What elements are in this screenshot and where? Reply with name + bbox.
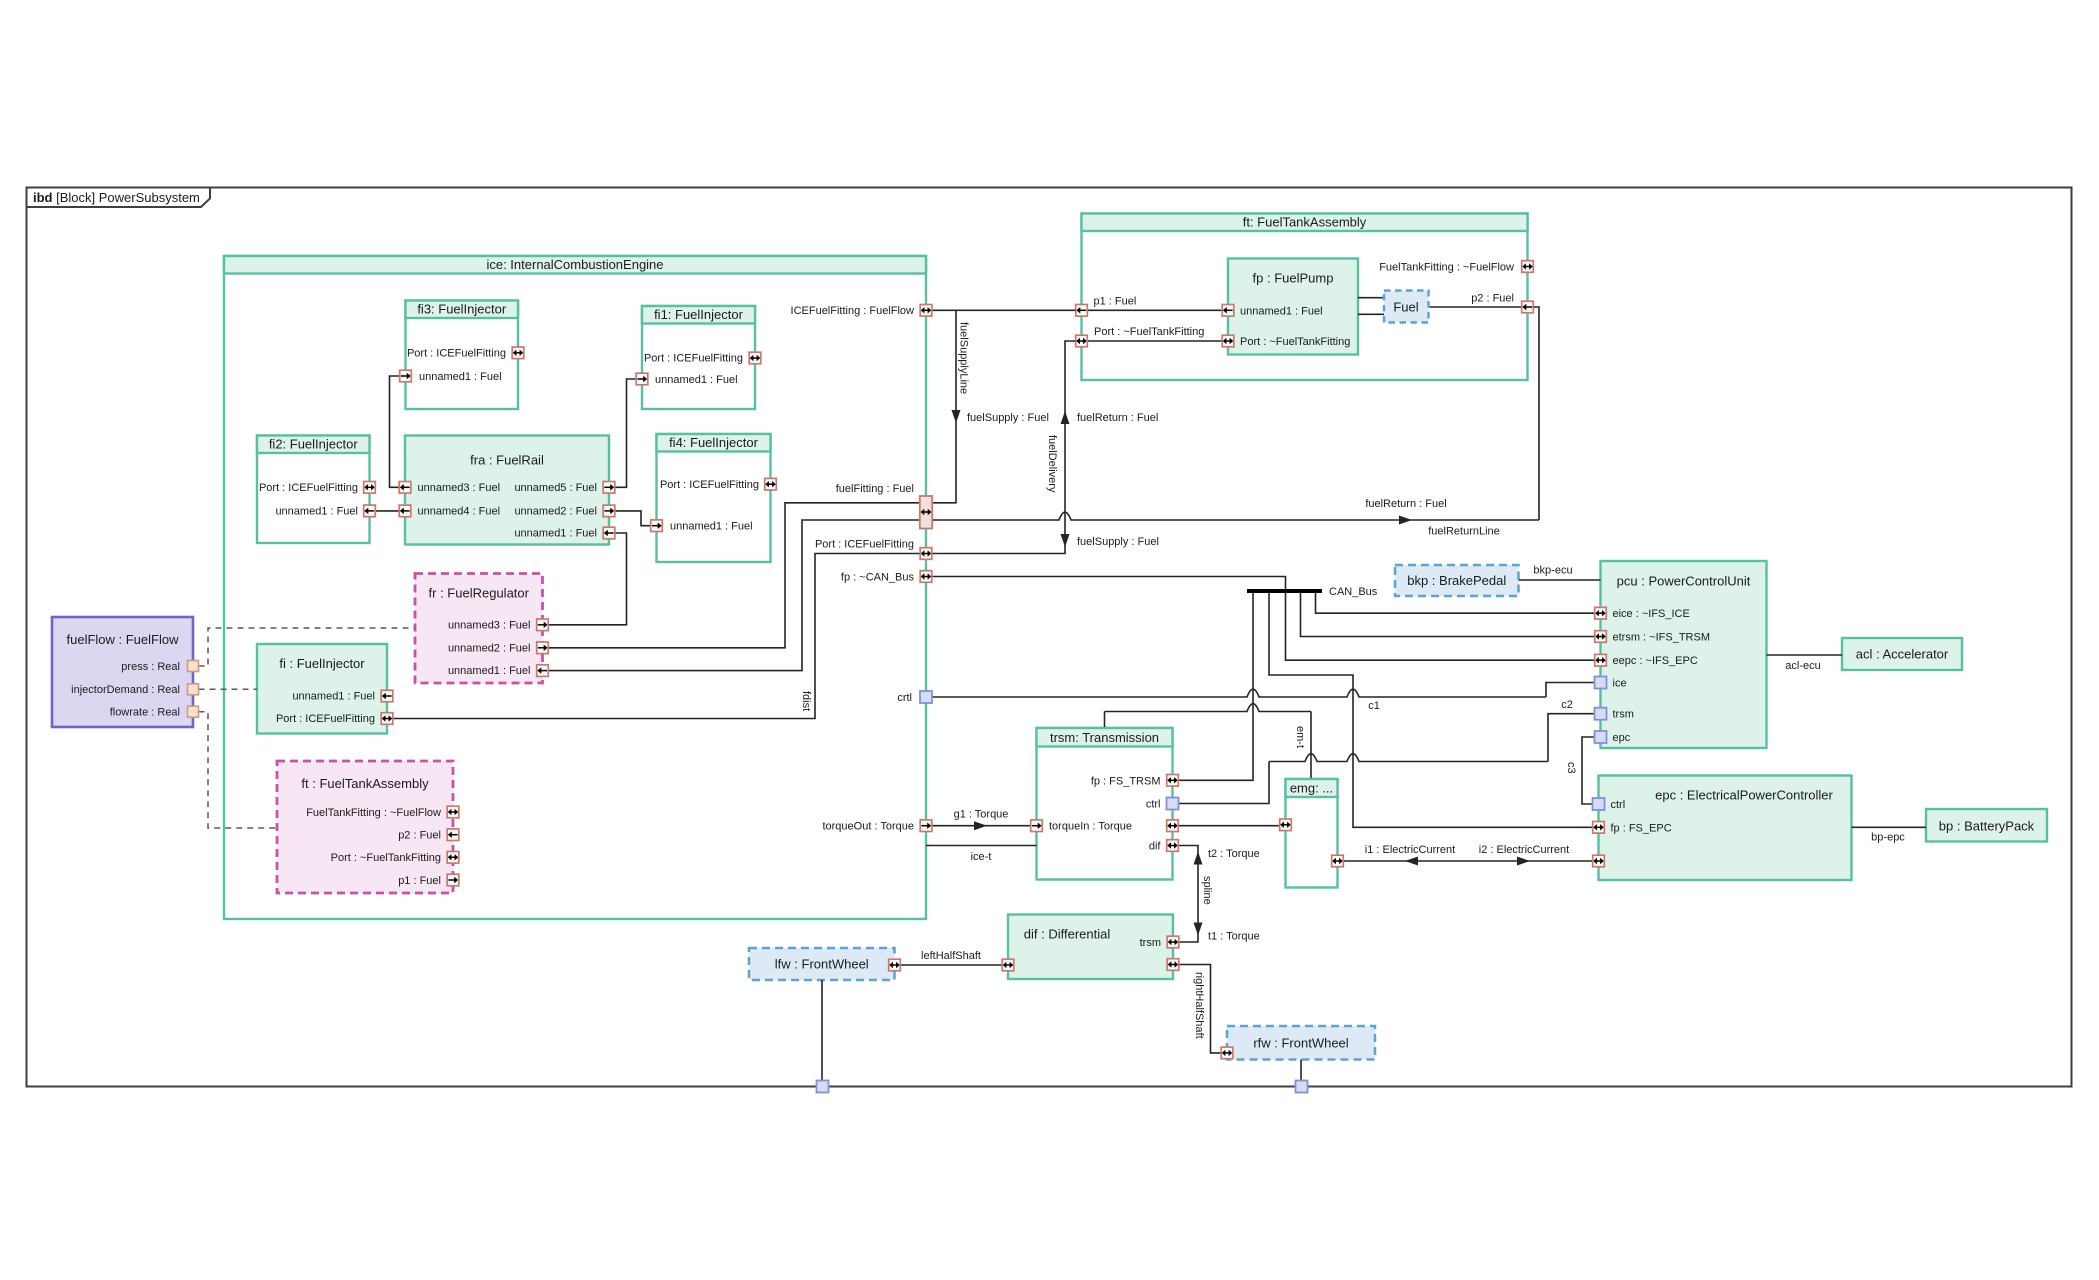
wire acl-ecu [1767,654,1843,656]
svg-text:torqueOut : Torque: torqueOut : Torque [822,821,914,833]
block emg: ... [1286,779,1338,888]
block trsm: Transmission [1037,728,1173,880]
block fi3: FuelInjector [406,301,519,410]
wire c1: ice crtl to pcu ice [933,689,1547,697]
ports fi [381,690,393,702]
port FuelTankFitting : ~FuelFlow (ft right) [1522,261,1534,273]
svg-text:fuelReturn : Fuel: fuelReturn : Fuel [1077,412,1158,424]
block fi4: FuelInjector [657,434,771,562]
svg-text:lfw : FrontWheel: lfw : FrontWheel [775,957,869,972]
svg-text:Port : ICEFuelFitting: Port : ICEFuelFitting [407,348,506,360]
wire fi3 unnamed1 to fra unnamed3 [390,376,400,487]
svg-text:flowrate : Real: flowrate : Real [110,707,180,719]
wire fi1 unnamed1 to fra unnamed5 [615,379,636,487]
svg-text:Port : ~FuelTankFitting: Port : ~FuelTankFitting [1094,326,1204,338]
svg-text:Port : ~FuelTankFitting: Port : ~FuelTankFitting [331,852,441,864]
svg-text:g1 : Torque: g1 : Torque [954,809,1009,821]
svg-text:p2 : Fuel: p2 : Fuel [1471,293,1514,305]
block fi1: FuelInjector [642,306,755,409]
svg-text:fuelSupply : Fuel: fuelSupply : Fuel [967,412,1049,424]
svg-text:fuelFlow : FuelFlow: fuelFlow : FuelFlow [67,632,180,647]
svg-text:fuelSupply : Fuel: fuelSupply : Fuel [1077,536,1159,548]
block epc : ElectricalPowerController [1599,776,1852,881]
svg-text:Port : ICEFuelFitting: Port : ICEFuelFitting [644,353,743,365]
wire fuelReturnLine [933,512,1540,520]
ports ft bottom [447,806,459,818]
block acl : Accelerator [1842,638,1962,670]
svg-text:rfw : FrontWheel: rfw : FrontWheel [1253,1035,1348,1050]
diagram frame [27,188,2072,1087]
svg-text:FuelTankFitting : ~FuelFlow: FuelTankFitting : ~FuelFlow [1379,262,1514,274]
wire bp-epc [1852,826,1927,828]
block fi : FuelInjector [257,644,387,734]
svg-text:fdist: fdist [800,691,812,711]
svg-text:fuelFitting : Fuel: fuelFitting : Fuel [836,483,914,495]
svg-text:pcu : PowerControlUnit: pcu : PowerControlUnit [1617,574,1751,589]
ports fi4 [765,478,777,490]
svg-text:emg: ...: emg: ... [1290,781,1333,796]
ports fra [399,482,411,494]
wire spline: trsm dif to dif trsm [1179,846,1199,943]
svg-text:torqueIn : Torque: torqueIn : Torque [1049,821,1132,833]
svg-text:bkp : BrakePedal: bkp : BrakePedal [1407,573,1506,588]
wire rightHalfShaft [1173,965,1221,1053]
svg-text:Port : ICEFuelFitting: Port : ICEFuelFitting [276,713,375,725]
block fr : FuelRegulator (dashed) [415,574,543,684]
svg-text:unnamed1 : Fuel: unnamed1 : Fuel [655,374,738,386]
svg-text:Port : ICEFuelFitting: Port : ICEFuelFitting [259,482,358,494]
svg-text:ICEFuelFitting : FuelFlow: ICEFuelFitting : FuelFlow [791,305,915,317]
svg-text:p2 : Fuel: p2 : Fuel [398,830,441,842]
block rfw : FrontWheel (dashed) [1227,1026,1375,1060]
wire p1 line: ICEFuelFitting to ft p1 [933,309,1076,311]
wire bus to trsm fp [1179,593,1254,781]
svg-text:fp : FS_EPC: fp : FS_EPC [1611,822,1672,834]
svg-text:press : Real: press : Real [121,661,180,673]
svg-text:fp : FS_TRSM: fp : FS_TRSM [1091,775,1161,787]
wire fp to Fuel [1358,297,1384,299]
svg-text:bp-epc: bp-epc [1871,832,1905,844]
svg-text:trsm: trsm [1613,709,1634,721]
svg-text:p1 : Fuel: p1 : Fuel [398,875,441,887]
wire bus to epc fp [1269,593,1593,828]
svg-text:ft : FuelTankAssembly: ft : FuelTankAssembly [301,776,429,791]
frame label tab ibd [Block] PowerSubsystem [27,188,211,208]
svg-text:FuelTankFitting : ~FuelFlow: FuelTankFitting : ~FuelFlow [306,807,441,819]
svg-text:fuelDelivery: fuelDelivery [1046,435,1058,493]
svg-text:acl : Accelerator: acl : Accelerator [1856,647,1949,662]
block bp : BatteryPack [1926,809,2047,842]
svg-text:unnamed1 : Fuel: unnamed1 : Fuel [292,691,375,703]
svg-text:Port : ICEFuelFitting: Port : ICEFuelFitting [660,479,759,491]
svg-text:etrsm : ~IFS_TRSM: etrsm : ~IFS_TRSM [1613,632,1711,644]
svg-text:fi4: FuelInjector: fi4: FuelInjector [669,435,759,450]
wire bus to pcu etrsm [1301,593,1595,637]
svg-text:bp : BatteryPack: bp : BatteryPack [1939,819,2035,834]
ice boundary port fp : ~CAN_Bus [920,571,932,583]
svg-text:t2 : Torque: t2 : Torque [1208,848,1260,860]
wire g1: torqueOut to torqueIn [933,825,1031,827]
port p2 : Fuel (ft right) [1522,301,1534,313]
wire dashed press to fr [199,628,416,666]
svg-text:ft: FuelTankAssembly: ft: FuelTankAssembly [1243,215,1367,230]
ports trsm [1031,820,1043,832]
wire bus to pcu eepc [1286,593,1595,661]
wire fra unnamed1 to fr unnamed3 [549,533,627,625]
svg-text:eepc : ~IFS_EPC: eepc : ~IFS_EPC [1613,655,1698,667]
block fp : FuelPump [1228,259,1358,355]
svg-text:fi1: FuelInjector: fi1: FuelInjector [654,307,744,322]
block ice: InternalCombustionEngine [224,256,926,919]
svg-text:injectorDemand : Real: injectorDemand : Real [71,684,180,696]
svg-text:c3: c3 [1565,762,1577,774]
svg-text:epc : ElectricalPowerControlle: epc : ElectricalPowerController [1655,788,1833,803]
ice boundary port Port : ICEFuelFitting [920,548,932,560]
ice boundary tall port fuelFitting : Fuel [920,496,932,529]
svg-text:i2 : ElectricCurrent: i2 : ElectricCurrent [1479,844,1569,856]
svg-text:trsm: trsm [1140,937,1161,949]
ports epc [1593,798,1605,810]
svg-text:Port : ~FuelTankFitting: Port : ~FuelTankFitting [1240,336,1350,348]
svg-text:dif : Differential: dif : Differential [1024,927,1111,942]
svg-text:c1: c1 [1368,700,1380,712]
block Fuel (dashed) [1384,291,1429,323]
frame port rfw [1296,1081,1308,1093]
svg-text:unnamed4 : Fuel: unnamed4 : Fuel [418,506,501,518]
svg-text:ctrl: ctrl [1146,799,1161,811]
svg-text:fp : ~CAN_Bus: fp : ~CAN_Bus [841,572,915,584]
svg-text:ice-t: ice-t [971,851,992,863]
port rfw [1221,1047,1233,1059]
svg-text:unnamed2 : Fuel: unnamed2 : Fuel [448,643,531,655]
svg-text:unnamed1 : Fuel: unnamed1 : Fuel [670,521,753,533]
svg-text:unnamed1 : Fuel: unnamed1 : Fuel [448,665,531,677]
wire Fuel to p2 [1429,306,1522,308]
wire fp CAN bus [933,577,1286,590]
svg-text:c2: c2 [1561,699,1573,711]
svg-text:unnamed2 : Fuel: unnamed2 : Fuel [514,506,597,518]
wire fi2 unnamed1 to fra unnamed4 [376,510,400,512]
svg-text:ice: InternalCombustionEngine: ice: InternalCombustionEngine [486,257,663,272]
svg-text:ctrl: ctrl [1611,799,1626,811]
ports emg [1280,819,1292,831]
svg-text:CAN_Bus: CAN_Bus [1329,586,1378,598]
wire Port inner [1088,340,1222,342]
svg-text:crtl: crtl [897,692,912,704]
svg-text:fuelReturn : Fuel: fuelReturn : Fuel [1365,498,1446,510]
svg-text:trsm: Transmission: trsm: Transmission [1050,730,1159,745]
block bkp : BrakePedal (dashed) [1395,565,1519,596]
ports pcu [1595,607,1607,619]
svg-text:fr : FuelRegulator: fr : FuelRegulator [429,586,530,601]
svg-text:unnamed1 : Fuel: unnamed1 : Fuel [419,371,502,383]
wire dashed flowrate to ft [199,712,278,828]
wire em-t: trsm to emg [1104,712,1106,728]
ice boundary port crtl [920,691,932,703]
wire fr unnamed1 to fuelFitting port [549,520,921,671]
svg-text:Fuel: Fuel [1393,300,1418,315]
wire fra unnamed2 to fi4 unnamed1 [615,511,651,526]
svg-text:rightHalfShaft: rightHalfShaft [1193,972,1205,1039]
port lfw [889,959,901,971]
ports fi3 [512,347,524,359]
svg-text:unnamed1 : Fuel: unnamed1 : Fuel [514,528,597,540]
port Port : ~FuelTankFitting (ft left) [1076,335,1088,347]
ice boundary port ICEFuelFitting : FuelFlow [920,305,932,317]
frame port lfw [817,1081,829,1093]
block fuelFlow : FuelFlow [52,617,193,727]
svg-text:unnamed1 : Fuel: unnamed1 : Fuel [1240,306,1323,318]
wire bus to pcu eice [1316,593,1595,614]
svg-text:fi2: FuelInjector: fi2: FuelInjector [269,437,359,452]
wire c3: pcu epc to epc ctrl [1582,737,1595,804]
wire ice-t [926,845,1037,847]
svg-text:fp : FuelPump: fp : FuelPump [1253,271,1334,286]
wire fdist: fi Port to ice Port ICEFuelFitting [393,554,920,719]
svg-text:leftHalfShaft: leftHalfShaft [921,950,981,962]
svg-text:fra : FuelRail: fra : FuelRail [470,453,544,468]
svg-text:bkp-ecu: bkp-ecu [1533,565,1572,577]
wire fuelDelivery [933,341,1076,554]
block ft: FuelTankAssembly [1082,214,1528,381]
svg-text:eice : ~IFS_ICE: eice : ~IFS_ICE [1613,608,1690,620]
block dif : Differential [1008,915,1173,980]
wire fr unnamed2 to fuelFitting port [549,503,921,648]
ports fi1 [749,352,761,364]
svg-text:fuelSupplyLine: fuelSupplyLine [958,322,970,394]
wire rfw to frame [1300,1060,1302,1082]
svg-text:unnamed3 : Fuel: unnamed3 : Fuel [418,482,501,494]
wire i1 i2: emg to epc [1344,860,1593,862]
ports dif [1167,936,1179,948]
port p1 : Fuel (ft left) [1076,305,1088,317]
block pcu : PowerControlUnit [1601,561,1767,748]
svg-text:fi : FuelInjector: fi : FuelInjector [279,656,365,671]
svg-text:p1 : Fuel: p1 : Fuel [1094,296,1137,308]
svg-text:em-t: em-t [1294,726,1306,748]
svg-text:epc: epc [1613,732,1631,744]
svg-text:fi3: FuelInjector: fi3: FuelInjector [417,302,507,317]
svg-text:unnamed1 : Fuel: unnamed1 : Fuel [275,506,358,518]
block fra : FuelRail [405,436,609,545]
svg-text:fuelReturnLine: fuelReturnLine [1428,526,1500,538]
svg-text:spline: spline [1201,876,1213,905]
svg-text:unnamed3 : Fuel: unnamed3 : Fuel [448,620,531,632]
wire leftHalfShaft [895,964,1009,966]
svg-text:dif: dif [1149,841,1162,853]
block lfw : FrontWheel (dashed) [749,948,895,980]
svg-text:t1 : Torque: t1 : Torque [1208,931,1260,943]
block ft : FuelTankAssembly (dashed) [277,761,453,893]
ports on fp [1222,305,1234,317]
svg-text:i1 : ElectricCurrent: i1 : ElectricCurrent [1365,844,1455,856]
wire fuelSupplyLine [933,310,957,503]
wire c2: trsm ctrl to pcu trsm [1179,762,1270,804]
svg-text:ibd [Block] PowerSubsystem: ibd [Block] PowerSubsystem [33,190,200,205]
svg-text:acl-ecu: acl-ecu [1785,660,1820,672]
ports fi2 [364,482,376,494]
CAN_Bus bar [1247,589,1322,593]
svg-text:Port : ICEFuelFitting: Port : ICEFuelFitting [815,539,914,551]
wire p1 inner [1088,309,1222,311]
ice boundary port torqueOut : Torque [920,820,932,832]
wire trsm to emg port [1179,825,1280,827]
svg-text:unnamed5 : Fuel: unnamed5 : Fuel [514,482,597,494]
squares fuelFlow [188,661,199,672]
block fi2: FuelInjector [257,436,370,544]
svg-text:ice: ice [1613,678,1627,690]
wire lfw to frame [821,980,823,1081]
wire dashed injectorDemand to fi [199,688,258,690]
ports fr [537,619,549,631]
wire bkp-ecu [1519,579,1601,581]
